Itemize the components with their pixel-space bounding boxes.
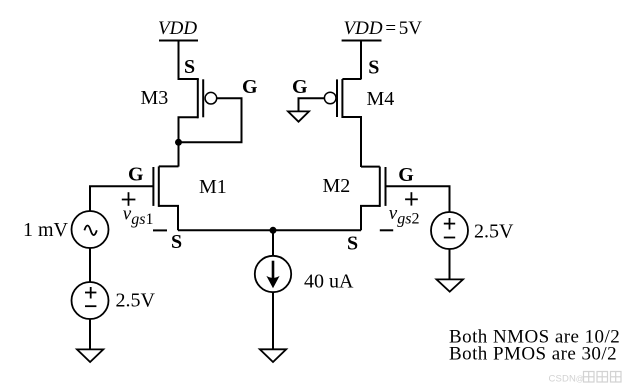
power VDD bar left <box>159 40 198 42</box>
wire M4 gate to ground <box>299 98 325 111</box>
svg-text:M1: M1 <box>199 176 227 198</box>
transistor M1 (NMOS) <box>153 166 178 230</box>
svg-text:2.5V: 2.5V <box>474 221 514 243</box>
node B junction dot <box>270 227 277 234</box>
svg-text:VDD = 5V: VDD = 5V <box>344 18 423 39</box>
wire V2 to ground <box>89 319 91 349</box>
wire V1 to V2 <box>89 248 91 282</box>
wire M3 gate to drain node <box>179 98 242 142</box>
wire V3 to ground <box>449 249 451 279</box>
current source I1 40uA <box>255 256 291 292</box>
plus sign vgs1 <box>122 192 136 206</box>
svg-text:M2: M2 <box>323 175 351 197</box>
ground right <box>437 279 464 291</box>
source V2 DC 2.5V left <box>72 282 109 319</box>
svg-text:Both PMOS are 30/2: Both PMOS are 30/2 <box>449 344 617 365</box>
svg-text:@: @ <box>576 374 584 383</box>
svg-text:1 mV: 1 mV <box>23 219 69 241</box>
svg-text:G: G <box>242 76 258 98</box>
wire node B to current source <box>272 230 274 256</box>
svg-text:S: S <box>171 231 182 253</box>
wire current source to ground <box>272 292 274 350</box>
wire M1 gate lead <box>90 186 153 211</box>
svg-text:G: G <box>398 164 414 186</box>
svg-text:M4: M4 <box>367 88 395 110</box>
svg-text:S: S <box>184 56 195 78</box>
minus sign vgs1 <box>153 229 167 231</box>
ground M4 gate <box>288 111 309 121</box>
svg-text:40 uA: 40 uA <box>304 271 354 293</box>
transistor M3 (PMOS) <box>179 79 217 142</box>
source V3 DC 2.5V right <box>431 212 468 249</box>
wire VDD to M3 source <box>178 41 180 80</box>
plus sign vgs2 <box>405 192 418 205</box>
svg-text:vgs1: vgs1 <box>123 204 154 229</box>
wire M2 gate lead <box>386 186 450 212</box>
ground left <box>77 349 103 362</box>
node A junction dot <box>175 139 182 146</box>
transistor M4 (PMOS) <box>324 79 361 167</box>
svg-text:VDD: VDD <box>158 18 197 39</box>
svg-text:G: G <box>292 76 308 98</box>
power VDD bar right <box>342 40 382 42</box>
svg-text:2.5V: 2.5V <box>116 290 156 312</box>
svg-text:CSDN: CSDN <box>549 373 577 384</box>
source V1 AC 1mV <box>72 211 109 248</box>
minus sign vgs2 <box>380 229 393 231</box>
svg-text:G: G <box>128 164 144 186</box>
wire tail node <box>178 229 361 231</box>
watermark CSDN <box>549 373 584 384</box>
svg-text:M3: M3 <box>141 87 169 109</box>
transistor M2 (NMOS) <box>361 167 386 231</box>
svg-text:S: S <box>347 233 358 255</box>
svg-text:S: S <box>368 57 379 79</box>
svg-text:vgs2: vgs2 <box>389 203 420 228</box>
wire VDD to M4 source <box>360 41 362 80</box>
wire node A to M1 drain <box>178 142 180 166</box>
ground tail <box>260 349 286 362</box>
